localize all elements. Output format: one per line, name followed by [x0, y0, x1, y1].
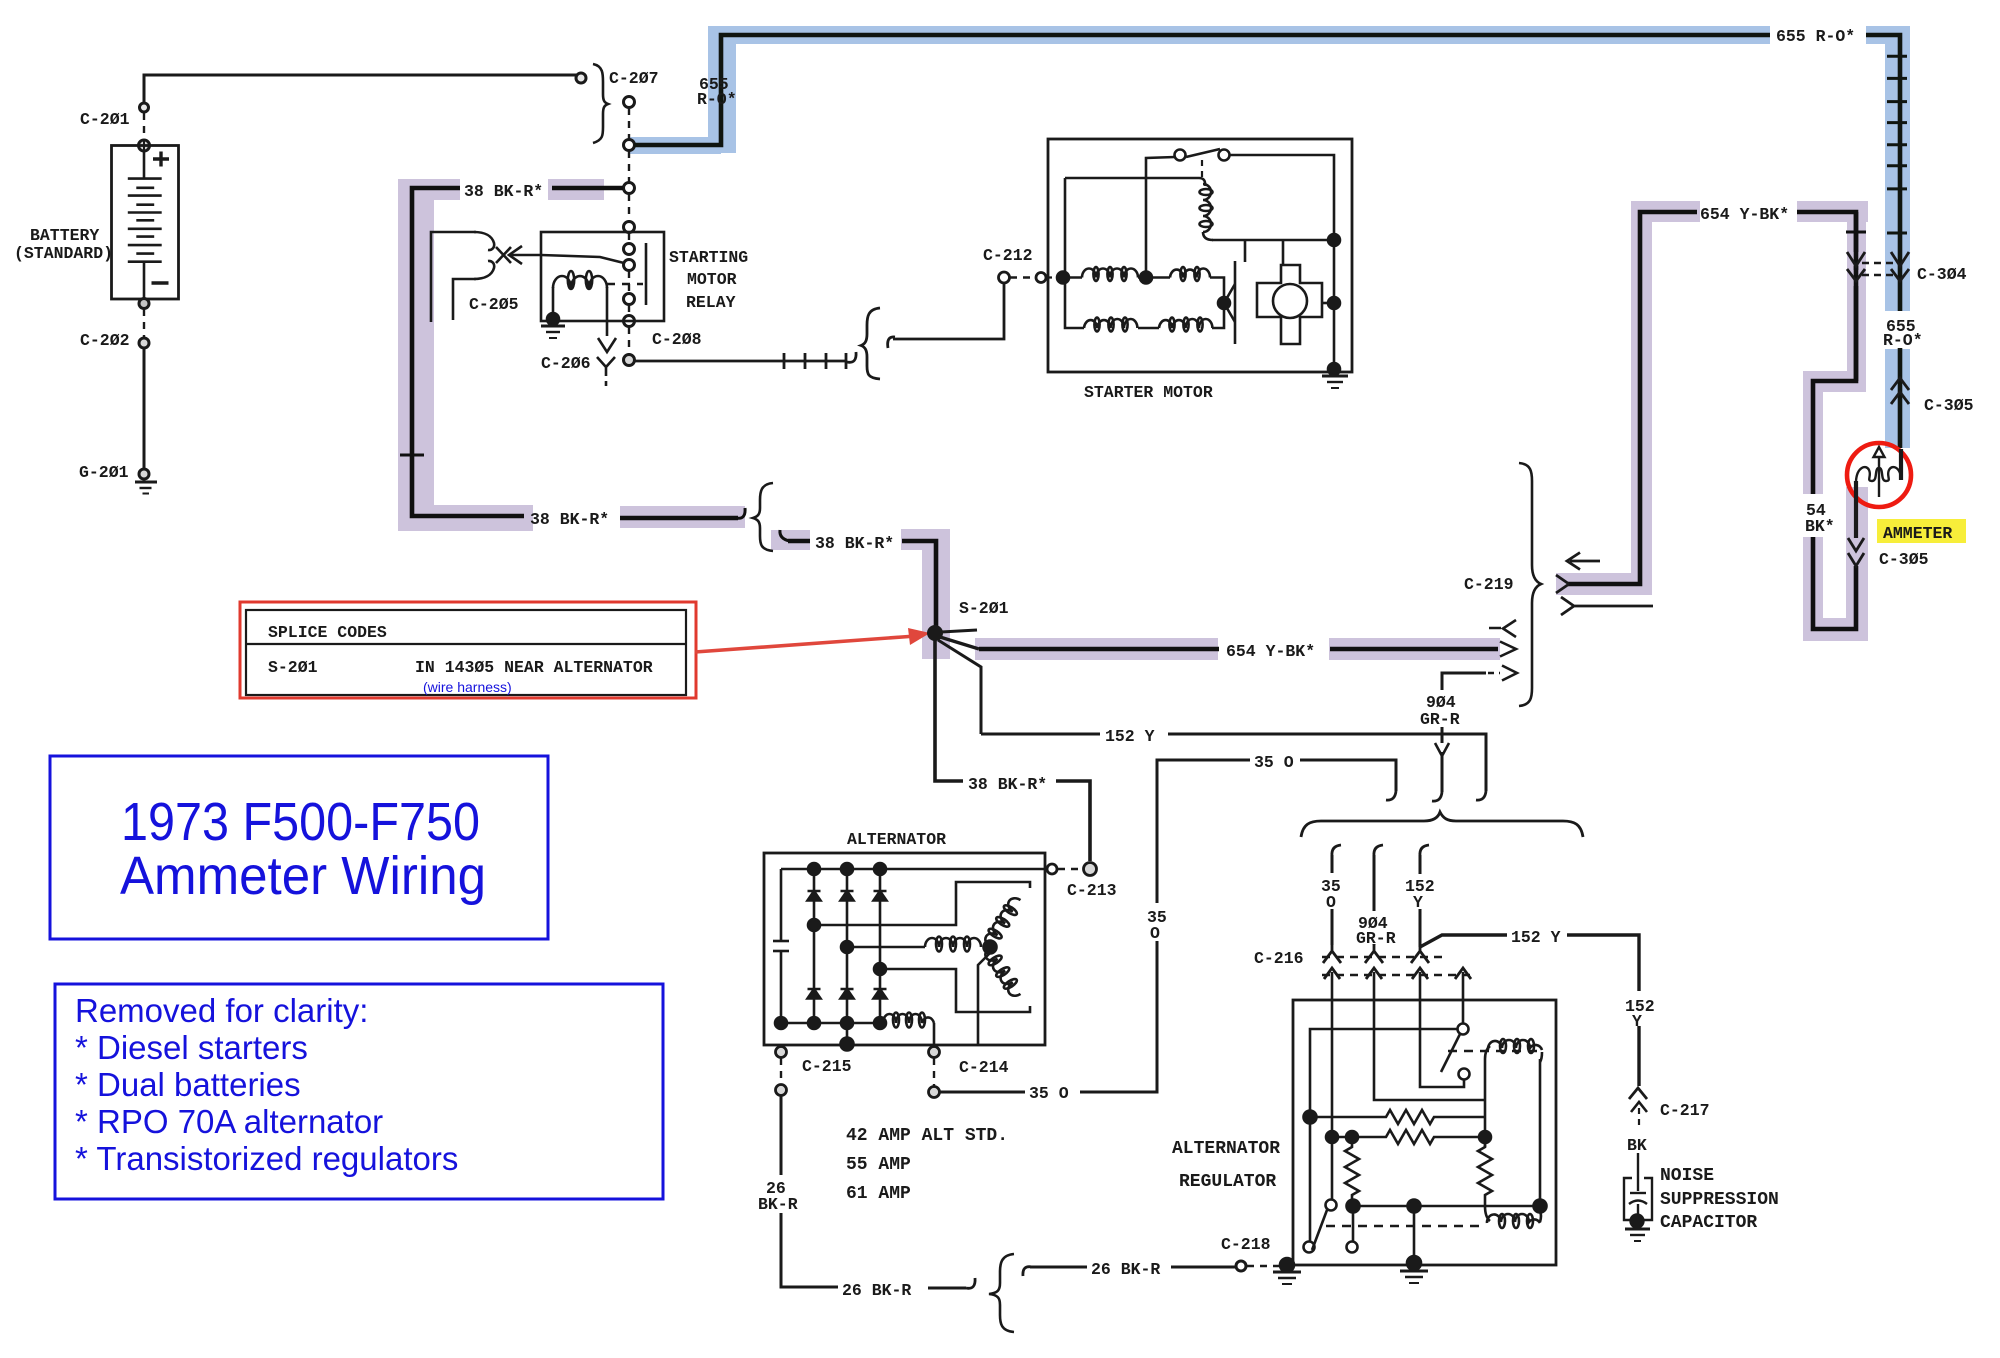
svg-text:152 Y: 152 Y: [1511, 928, 1561, 947]
battery plus mark: [153, 152, 169, 167]
svg-text:O: O: [1150, 924, 1160, 943]
field relay lever: [1441, 1034, 1460, 1072]
connector C-214: [929, 1047, 940, 1098]
svg-text:ALTERNATOR: ALTERNATOR: [847, 830, 946, 849]
armature cross: [1257, 265, 1322, 344]
ground (starter motor): [1322, 375, 1348, 378]
svg-text:SPLICE CODES: SPLICE CODES: [268, 623, 387, 642]
svg-text:GR-R: GR-R: [1356, 929, 1396, 948]
wire 904 GR-R below brace: [1374, 845, 1383, 945]
wire S-201 down to 38 BK-R branch: [935, 640, 1090, 861]
wire field junction to switch: [1146, 157, 1175, 278]
bottom bus row: [1353, 1205, 1540, 1208]
ammeter M2 red circle: [1847, 443, 1911, 507]
relay coil: [553, 276, 607, 288]
resistor R3 (vertical): [1345, 1143, 1359, 1206]
connector C-304: [1847, 252, 1909, 281]
wire 654 Y-BK to C-219 (purple): [1568, 212, 1697, 584]
wire battery positive to C-207: [144, 75, 576, 103]
field relay upper contact: [1458, 1024, 1469, 1035]
svg-text:654 Y-BK*: 654 Y-BK*: [1700, 205, 1789, 224]
battery B1 case: [112, 146, 179, 300]
wire S-201 to 152 Y: [938, 640, 981, 734]
junction dots top bus: [808, 863, 820, 875]
svg-text:35 O: 35 O: [1254, 753, 1294, 772]
stator phase winding A (horizontal): [925, 938, 981, 947]
splice S-201: [927, 625, 943, 641]
field winding row 2: [1065, 177, 1199, 180]
svg-text:55 AMP: 55 AMP: [846, 1155, 911, 1175]
C-207 brace: [593, 64, 608, 143]
title box: [50, 756, 548, 939]
svg-text:Y: Y: [1413, 893, 1423, 912]
field winding row 1: [1057, 272, 1069, 284]
connector C-201: [140, 103, 149, 112]
diode branch 1: [813, 869, 816, 1023]
svg-text:S-2Ø1: S-2Ø1: [268, 658, 318, 677]
resistor R4 (vertical): [1478, 1143, 1492, 1206]
connector C-215: [776, 1047, 787, 1096]
capacitor (alternator): [773, 940, 789, 943]
svg-text:C-3Ø5: C-3Ø5: [1924, 396, 1974, 415]
resistor R1: [1316, 1110, 1485, 1124]
svg-text:* Dual batteries: * Dual batteries: [75, 1066, 301, 1103]
solenoid pull-in coil: [1199, 178, 1205, 186]
ground (regulator C-218): [1280, 1258, 1294, 1272]
connector C-305 upper: [1891, 378, 1909, 404]
svg-text:C-2Ø6: C-2Ø6: [541, 354, 591, 373]
tick on 654 right leg: [1846, 231, 1866, 234]
svg-text:Ammeter Wiring: Ammeter Wiring: [120, 846, 486, 906]
svg-text:SUPPRESSION: SUPPRESSION: [1660, 1190, 1779, 1210]
connector C-219 brace: [1519, 463, 1541, 706]
svg-text:O: O: [1326, 893, 1336, 912]
wire contact to bus: [1310, 1029, 1458, 1117]
svg-text:* Transistorized regulators: * Transistorized regulators: [75, 1140, 458, 1177]
battery minus mark: [152, 281, 169, 284]
ground (relay coil): [547, 313, 559, 325]
svg-text:C-3Ø4: C-3Ø4: [1917, 265, 1967, 284]
junction dot: [1304, 1111, 1317, 1124]
svg-text:STARTING: STARTING: [669, 248, 748, 267]
diodes upper row: [808, 891, 887, 901]
wire to lower switch: [1309, 1117, 1312, 1242]
svg-text:R-O*: R-O*: [697, 90, 737, 109]
connector fork above 654 arrow: [1489, 620, 1516, 637]
battery negative terminal: [139, 299, 149, 309]
diodes lower row: [808, 989, 887, 999]
wire 152 Y from S-201: [981, 734, 1486, 800]
wire 654 Y-BK right leg (purple): [1797, 212, 1856, 629]
connector C-216: [1322, 945, 1472, 979]
wire solenoid to armature bus: [1212, 239, 1334, 242]
wire 152 Y into regulator: [1420, 972, 1464, 1087]
right feed vertical: [1484, 1059, 1487, 1147]
fusible-link ticks on 655 R-O: [1887, 56, 1907, 233]
wire 904 GR-R upper: [1442, 673, 1500, 690]
wire 35 O leg to lower contact: [1331, 1137, 1334, 1200]
stub wire from S-201: [941, 630, 977, 632]
stator phase winding C (lower diagonal): [981, 945, 1024, 1000]
hook and wire 26 BK-R to C-218: [1023, 1261, 1280, 1276]
svg-text:BK: BK: [1627, 1136, 1647, 1155]
svg-text:C-216: C-216: [1254, 949, 1304, 968]
wire 35 O below brace: [1332, 845, 1341, 945]
svg-text:MOTOR: MOTOR: [687, 270, 737, 289]
noise suppression capacitor C1: [1624, 1153, 1652, 1241]
svg-text:C-2Ø5: C-2Ø5: [469, 295, 519, 314]
stator phase winding B (upper diagonal): [981, 894, 1024, 949]
svg-text:CAPACITOR: CAPACITOR: [1660, 1213, 1757, 1233]
svg-text:38 BK-R*: 38 BK-R*: [815, 534, 894, 553]
svg-text:AMMETER: AMMETER: [1883, 524, 1952, 543]
svg-text:GR-R: GR-R: [1420, 710, 1460, 729]
svg-text:Removed for clarity:: Removed for clarity:: [75, 992, 368, 1029]
connector C-217 fork: [1629, 1088, 1647, 1099]
wire switch to right bus: [1229, 155, 1334, 369]
svg-text:61 AMP: 61 AMP: [846, 1184, 911, 1204]
svg-text:C-3Ø5: C-3Ø5: [1879, 550, 1929, 569]
field relay lower contact: [1459, 1069, 1470, 1080]
hook at 38 BK-R wire end: [736, 508, 745, 518]
svg-text:35 O: 35 O: [1029, 1084, 1069, 1103]
inline connector brace (38 BK-R): [753, 483, 773, 551]
C-207 connector chain circles: [624, 97, 635, 108]
wire stubs at C-205: [431, 232, 476, 322]
regulator case: [1293, 1000, 1556, 1265]
regulator lower lever: [1312, 1210, 1327, 1250]
wire C-202 to ground: [143, 348, 146, 469]
connector C-206 arrow: [598, 338, 616, 352]
svg-text:C-2Ø8: C-2Ø8: [652, 330, 702, 349]
svg-text:REGULATOR: REGULATOR: [1179, 1172, 1276, 1192]
label 35 O (on vertical): [1143, 903, 1171, 941]
bulkhead brace: [861, 308, 880, 379]
diode branch 3: [879, 869, 882, 1023]
tick on 38 BK-R vertical: [400, 454, 424, 457]
connector C-202: [139, 338, 149, 348]
svg-text:C-215: C-215: [802, 1057, 852, 1076]
svg-text:R-O*: R-O*: [1883, 331, 1923, 350]
wire to C-212: [888, 337, 895, 348]
starter motor case: [1048, 139, 1352, 372]
wire S-201 to 654 Y-BK: [940, 637, 979, 649]
svg-text:C-217: C-217: [1660, 1101, 1710, 1120]
connector C-217 arrow: [1631, 1102, 1647, 1128]
rotor field coil: [883, 1014, 934, 1023]
svg-text:C-218: C-218: [1221, 1235, 1271, 1254]
inline connector brace (26 BK-R): [989, 1254, 1014, 1332]
wire 152 Y branch right: [1420, 935, 1639, 1086]
field relay coil (lower): [1485, 1206, 1490, 1221]
svg-text:38 BK-R*: 38 BK-R*: [464, 182, 543, 201]
stator tap wires: [808, 919, 820, 931]
svg-text:(wire harness): (wire harness): [423, 679, 512, 695]
ammeter symbol: [1856, 447, 1901, 538]
junction dots right bus: [1328, 234, 1340, 246]
wire coil to C-206: [606, 287, 609, 336]
bottom bus: [781, 1022, 883, 1025]
svg-text:C-2Ø1: C-2Ø1: [80, 110, 130, 129]
wire field-relay contact feed: [1462, 972, 1465, 1024]
connector C-205 fork halves: [431, 232, 541, 322]
wire 655 R-O highlight band top run: [629, 26, 1910, 448]
svg-text:NOISE: NOISE: [1660, 1166, 1714, 1186]
C-219 lower fork with wire: [1561, 597, 1653, 615]
wire 904 GR-R into regulator: [1374, 972, 1485, 1100]
relay coil ground wire: [552, 287, 555, 316]
connector arrow at 904 GR-R end: [1502, 666, 1517, 681]
svg-text:STARTER MOTOR: STARTER MOTOR: [1084, 383, 1213, 402]
svg-text:(STANDARD): (STANDARD): [14, 244, 113, 263]
svg-text:26 BK-R: 26 BK-R: [842, 1281, 911, 1300]
svg-text:C-212: C-212: [983, 246, 1033, 265]
bundle brace (to cab harness): [1301, 812, 1583, 837]
removed-for-clarity note box: [55, 984, 663, 1199]
C-219 fork on 654 wire: [1556, 575, 1569, 593]
svg-text:S-2Ø1: S-2Ø1: [959, 599, 1009, 618]
svg-text:655 R-O*: 655 R-O*: [1776, 27, 1855, 46]
hook at second 38 BK-R segment: [780, 530, 790, 541]
svg-text:C-213: C-213: [1067, 881, 1117, 900]
svg-text:BATTERY: BATTERY: [30, 226, 99, 245]
wire 26 BK-R from C-215: [781, 1096, 975, 1288]
connector C-213: [1047, 863, 1097, 876]
wire 38 BK-R / 654 Y-BK / 54 BK highlight bands (lavender): [398, 179, 1868, 660]
svg-text:1973 F500-F750: 1973 F500-F750: [121, 792, 480, 852]
diode branch 2: [846, 869, 849, 1044]
svg-text:Y: Y: [1632, 1012, 1642, 1031]
output bus wire: [781, 868, 1045, 871]
svg-text:C-214: C-214: [959, 1058, 1009, 1077]
voltage limiter coil (upper): [1485, 1046, 1490, 1059]
svg-text:BK-R: BK-R: [758, 1195, 798, 1214]
left vertical with capacitor: [780, 869, 783, 936]
C-219 upper arrow (points left): [1567, 553, 1600, 570]
svg-text:38 BK-R*: 38 BK-R*: [530, 510, 609, 529]
svg-text:G-2Ø1: G-2Ø1: [79, 463, 129, 482]
battery B1 positive terminal: [139, 140, 150, 151]
relay armature bar: [645, 243, 648, 305]
wire 904 GR-R down with arrow: [1432, 727, 1449, 801]
battery cell plates: [128, 151, 162, 299]
svg-text:* RPO 70A alternator: * RPO 70A alternator: [75, 1103, 383, 1140]
svg-text:C-219: C-219: [1464, 575, 1514, 594]
wire 35 O from C-214: [939, 760, 1396, 1092]
svg-text:C-2Ø2: C-2Ø2: [80, 331, 130, 350]
solenoid switch contacts: [1175, 150, 1186, 161]
AMMETER label yellow highlight: [1877, 519, 1966, 543]
stator neutral node: [984, 941, 997, 954]
relay movable contact: [541, 255, 624, 263]
wire 152 Y below brace: [1420, 845, 1429, 947]
resistor R2: [1332, 1130, 1480, 1144]
svg-text:ALTERNATOR: ALTERNATOR: [1172, 1139, 1280, 1159]
ground (regulator center): [1407, 1256, 1421, 1270]
connector C-305 lower: [1848, 538, 1864, 566]
svg-text:* Diesel starters: * Diesel starters: [75, 1029, 308, 1066]
connector arrow at 654 Y-BK end: [1500, 642, 1516, 657]
svg-text:BK*: BK*: [1805, 517, 1835, 536]
wire C-208 to bulkhead connector: [635, 272, 1046, 379]
brush feed wires: [1244, 240, 1247, 262]
splice codes table: [240, 602, 696, 698]
alternator case: [764, 853, 1045, 1045]
relay box: [541, 232, 664, 321]
svg-text:26 BK-R: 26 BK-R: [1091, 1260, 1160, 1279]
wire 35 O into regulator: [1331, 972, 1334, 1137]
connector C-207 half: [576, 73, 586, 83]
svg-text:RELAY: RELAY: [686, 293, 736, 312]
svg-text:654 Y-BK*: 654 Y-BK*: [1226, 642, 1315, 661]
callout arrow from splice table to S-201: [695, 628, 930, 652]
svg-text:42 AMP ALT STD.: 42 AMP ALT STD.: [846, 1126, 1008, 1146]
ground G-201: [139, 469, 149, 479]
svg-text:38 BK-R*: 38 BK-R*: [968, 775, 1047, 794]
svg-text:C-2Ø7: C-2Ø7: [609, 69, 659, 88]
svg-text:152 Y: 152 Y: [1105, 727, 1155, 746]
svg-text:IN 143Ø5 NEAR ALTERNATOR: IN 143Ø5 NEAR ALTERNATOR: [415, 658, 653, 677]
